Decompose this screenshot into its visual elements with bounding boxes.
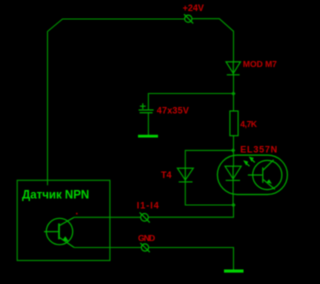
svg-text:4,7K: 4,7K (240, 119, 258, 129)
svg-text:MOD M7: MOD M7 (243, 59, 277, 69)
svg-text:47x35V: 47x35V (157, 105, 189, 115)
svg-text:GND: GND (138, 233, 155, 243)
svg-text:EL357N: EL357N (240, 144, 278, 154)
svg-text:T4: T4 (161, 170, 172, 180)
svg-text:I1-I4: I1-I4 (137, 201, 160, 211)
svg-text:+24V: +24V (183, 3, 204, 13)
svg-text:Датчик NPN: Датчик NPN (22, 189, 89, 201)
